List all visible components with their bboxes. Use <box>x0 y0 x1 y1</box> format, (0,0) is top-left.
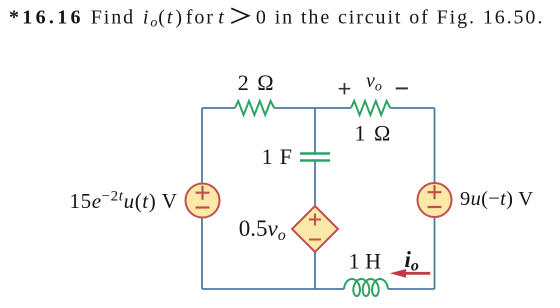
voltage source V2 circle <box>418 183 452 217</box>
capacitor C1 1F plates <box>300 154 330 161</box>
D1 plus sign <box>309 214 321 226</box>
svg-text:1 F: 1 F <box>262 144 293 169</box>
svg-text:0.5vo: 0.5vo <box>239 216 286 244</box>
current arrow io head <box>390 269 406 278</box>
svg-text:*16.16 Find io(t) for t 0 in t: *16.16 Find io(t) for t 0 in the circuit… <box>9 6 544 30</box>
svg-text:vo: vo <box>366 70 382 95</box>
svg-text:15e−2tu(t) V: 15e−2tu(t) V <box>70 189 178 214</box>
wire: top-left segment <box>202 107 235 109</box>
wire: right branch lower <box>434 217 436 289</box>
wire: middle branch upper <box>314 108 316 153</box>
svg-text:9u(−t) V: 9u(−t) V <box>460 188 533 210</box>
wire: right branch upper <box>434 108 436 183</box>
wire: bottom-left segment <box>202 288 344 290</box>
wire: top-right segment <box>390 107 434 109</box>
wire: bottom-right segment <box>388 288 435 290</box>
label minus of vo <box>396 87 408 89</box>
V1 minus sign <box>196 206 210 208</box>
title greater-than sign <box>231 8 248 23</box>
voltage source V1 circle <box>186 184 220 218</box>
label plus of vo <box>339 83 351 94</box>
svg-text:1 Ω: 1 Ω <box>354 121 392 146</box>
V1 plus sign <box>196 186 210 200</box>
V2 minus sign <box>428 206 442 208</box>
resistor R1 2ohm zigzag <box>235 101 274 115</box>
inductor L1 1H coil <box>344 279 388 296</box>
wire: middle branch between cap and diamond <box>314 161 316 207</box>
svg-text:io: io <box>405 247 419 275</box>
V2 plus sign <box>428 185 442 199</box>
wire: left branch lower <box>201 218 203 290</box>
svg-text:1 H: 1 H <box>349 248 382 273</box>
wire: left branch upper <box>201 108 203 184</box>
wire: top-middle segment <box>274 107 351 109</box>
current arrow io shaft <box>405 272 430 275</box>
dependent source D1 diamond <box>292 206 338 252</box>
wire: middle branch lower <box>314 252 316 289</box>
resistor R2 1ohm zigzag <box>351 101 390 115</box>
svg-text:2 Ω: 2 Ω <box>238 70 276 95</box>
D1 minus sign <box>309 239 321 241</box>
